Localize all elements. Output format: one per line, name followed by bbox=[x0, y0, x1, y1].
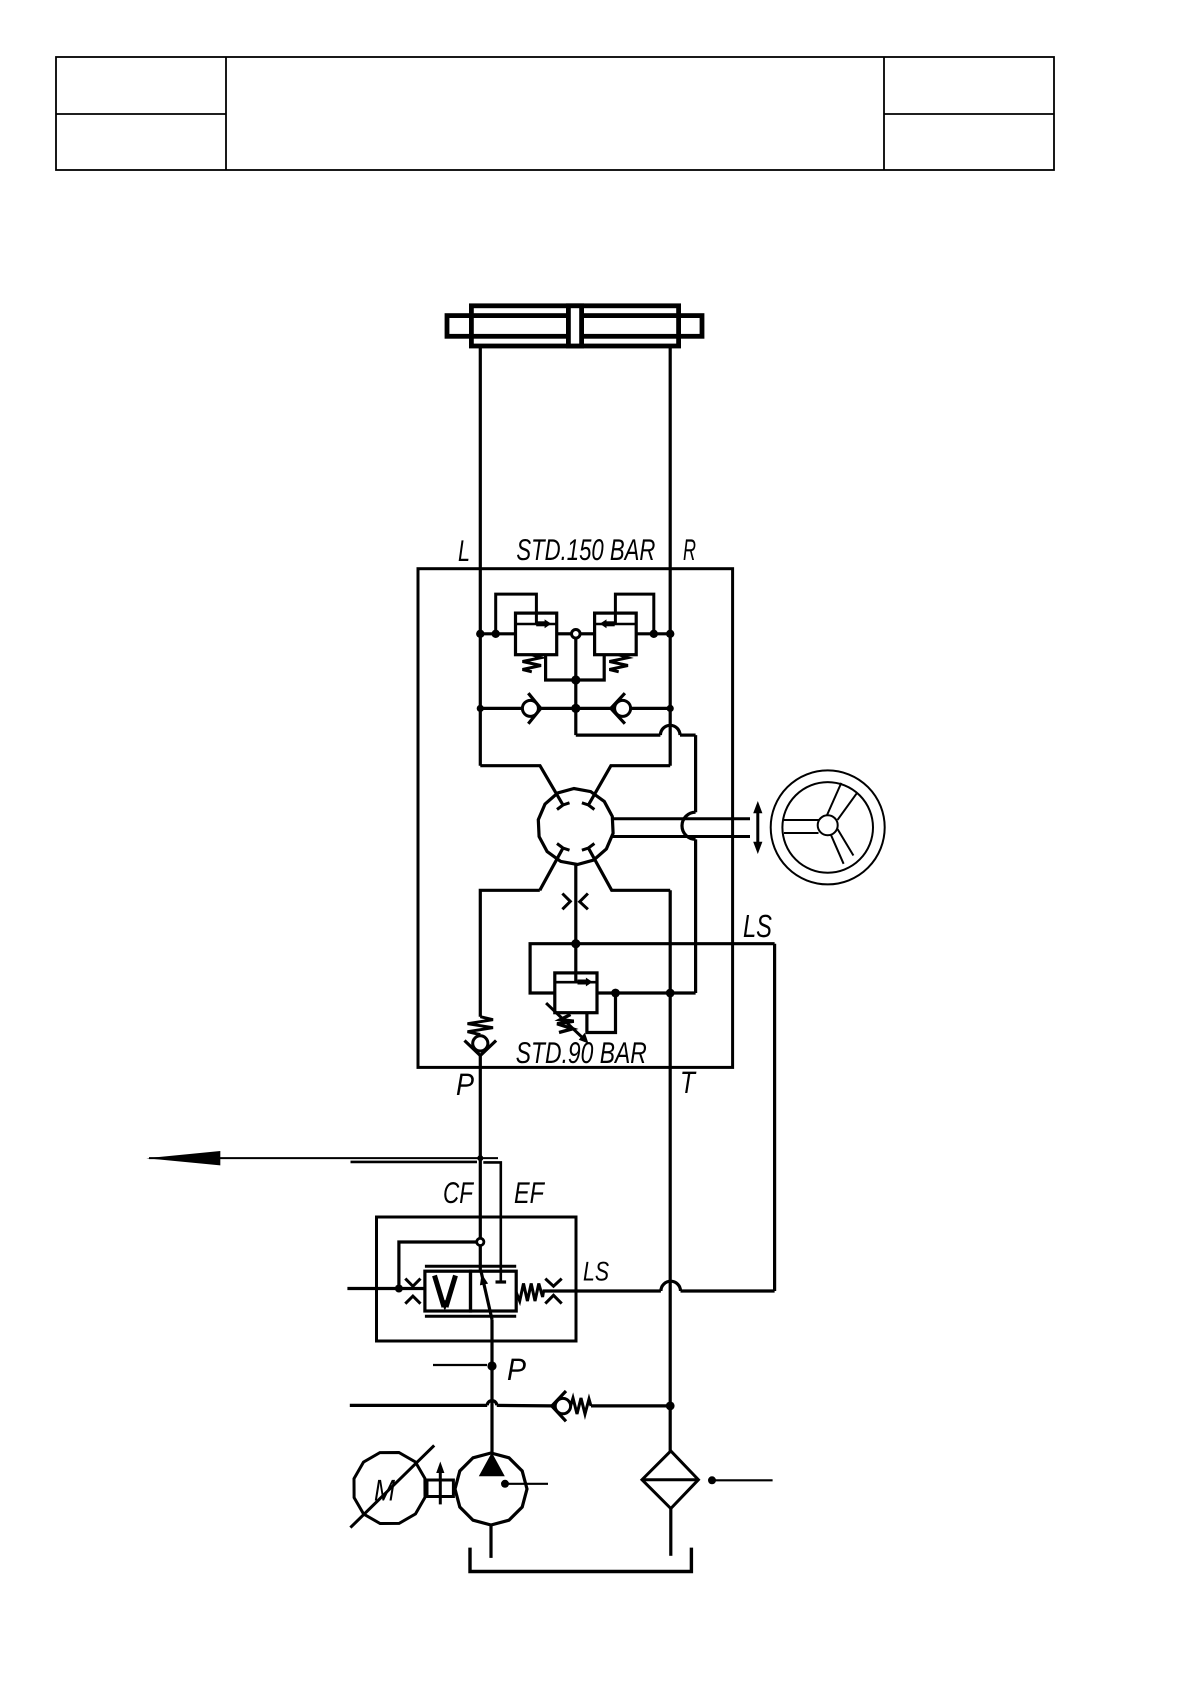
node shock valve outlet junction bbox=[571, 675, 580, 684]
port ring CF pilot tap bbox=[477, 1238, 484, 1245]
svg-text:T: T bbox=[680, 1065, 697, 1100]
steering wheel W1 bbox=[771, 770, 885, 884]
steering unit enclosure box bbox=[418, 569, 733, 1068]
svg-text:R: R bbox=[683, 534, 696, 567]
wire T dogleg from metering bbox=[588, 848, 670, 890]
wire P lower run bbox=[480, 890, 540, 1016]
wire R line inside steering unit bbox=[669, 569, 672, 766]
svg-text:L: L bbox=[458, 535, 470, 568]
node pilot R tee bbox=[650, 630, 658, 638]
node pilot L tee bbox=[492, 630, 500, 638]
node check rail center bbox=[571, 704, 580, 713]
node check rail left bbox=[477, 705, 484, 712]
wire R dogleg to metering bbox=[588, 766, 670, 805]
node rail R junction bbox=[666, 630, 674, 638]
node rail L junction bbox=[476, 630, 484, 638]
priority valve pilot loop bbox=[347, 1242, 476, 1289]
wire T line external bbox=[669, 1067, 672, 1451]
relief valve RV1 left shock valve bbox=[496, 594, 576, 680]
orifice LS right bbox=[545, 1279, 561, 1304]
wire metering bottom center line bbox=[574, 865, 577, 983]
hydraulic pump PU1 bbox=[455, 1453, 548, 1526]
orifice pilot left bbox=[405, 1279, 420, 1304]
svg-text:STD.90 BAR: STD.90 BAR bbox=[516, 1037, 647, 1070]
wire L dogleg to metering bbox=[480, 766, 563, 805]
wire cylinder R port bbox=[669, 346, 672, 569]
check valve CV3 inlet check on P bbox=[465, 1017, 497, 1068]
wire P gauge stub bbox=[433, 1364, 487, 1366]
wire center to sleeve dogleg bbox=[576, 708, 696, 735]
wire LS rail to priority valve bbox=[543, 1281, 775, 1291]
steering cylinder C1 barrel bbox=[471, 306, 678, 346]
svg-text:CF: CF bbox=[443, 1177, 474, 1210]
wire sleeve line down right side bbox=[682, 735, 696, 993]
wire P dogleg to metering bbox=[540, 848, 563, 890]
wire P line external bbox=[479, 1067, 482, 1271]
metering port tick top-right bbox=[582, 803, 595, 810]
svg-text:LS: LS bbox=[583, 1257, 609, 1287]
relief valve RV3 90 bar LS relief bbox=[546, 973, 615, 1044]
check valve CV4 bypass bbox=[552, 1391, 670, 1421]
node T rail junction bbox=[666, 989, 675, 998]
wire center line shock to check rail bbox=[574, 638, 577, 709]
metering port tick bottom-left bbox=[557, 844, 570, 851]
wire L line inside steering unit bbox=[479, 569, 482, 766]
wire LS rail bbox=[530, 944, 775, 993]
svg-text:STD.150 BAR: STD.150 BAR bbox=[516, 534, 655, 567]
steering wheel double arrow bbox=[753, 801, 762, 854]
node drain tee bbox=[611, 989, 620, 998]
metering unit rotor circle bbox=[538, 789, 613, 865]
svg-text:EF: EF bbox=[514, 1177, 545, 1210]
wire filter to tank bbox=[669, 1509, 672, 1556]
node P pump junction bbox=[487, 1361, 496, 1370]
wire filter stub bbox=[712, 1479, 773, 1481]
wire relief outlet rail bbox=[597, 991, 696, 994]
node center port ring bbox=[572, 630, 581, 639]
node bypass T tee bbox=[666, 1402, 675, 1411]
filter F1 bbox=[642, 1451, 698, 1509]
svg-text:M: M bbox=[374, 1475, 395, 1508]
metering port tick top-left bbox=[557, 803, 570, 810]
wire cylinder L port bbox=[479, 346, 482, 569]
wire pump suction bbox=[489, 1525, 492, 1558]
tank reservoir bbox=[470, 1548, 691, 1572]
relief valve RV2 right shock valve bbox=[576, 594, 654, 680]
node check rail right bbox=[667, 705, 674, 712]
node filter stub dot bbox=[708, 1476, 716, 1484]
wire LS line down right side bbox=[773, 944, 776, 1291]
svg-text:P: P bbox=[507, 1352, 526, 1387]
steering cylinder C1 piston bbox=[568, 306, 581, 346]
svg-text:LS: LS bbox=[743, 908, 772, 944]
svg-text:P: P bbox=[456, 1067, 474, 1102]
wire check valve rail bbox=[480, 707, 670, 710]
metering port tick bottom-right bbox=[582, 844, 595, 851]
wire T line inside box bbox=[669, 890, 672, 1067]
wire EF branch bbox=[351, 1162, 501, 1281]
check valve CV2 right anti-cavitation bbox=[611, 693, 631, 724]
priority valve spring bbox=[516, 1284, 543, 1302]
electric motor M1 bbox=[350, 1445, 434, 1527]
priority valve enclosure bbox=[377, 1217, 577, 1341]
shaft coupling bbox=[427, 1462, 453, 1505]
wire steering column shaft bbox=[613, 819, 751, 837]
check valve CV1 left anti-cavitation bbox=[522, 693, 540, 724]
orifice neutral chevrons bbox=[562, 894, 588, 910]
node LS tee bbox=[571, 939, 580, 948]
EF flow arrow to auxiliary bbox=[146, 1151, 498, 1165]
title block table bbox=[56, 57, 1054, 170]
node EF arrow junction bbox=[477, 1155, 483, 1161]
wire shock valve rail bbox=[480, 632, 670, 635]
node pilot tee dot bbox=[395, 1285, 403, 1293]
wire CF line below valve bbox=[490, 1320, 493, 1454]
wire suction bypass line bbox=[350, 1401, 552, 1406]
steering cylinder C1 rod bbox=[447, 316, 702, 337]
priority valve PV1 body bbox=[425, 1266, 516, 1319]
